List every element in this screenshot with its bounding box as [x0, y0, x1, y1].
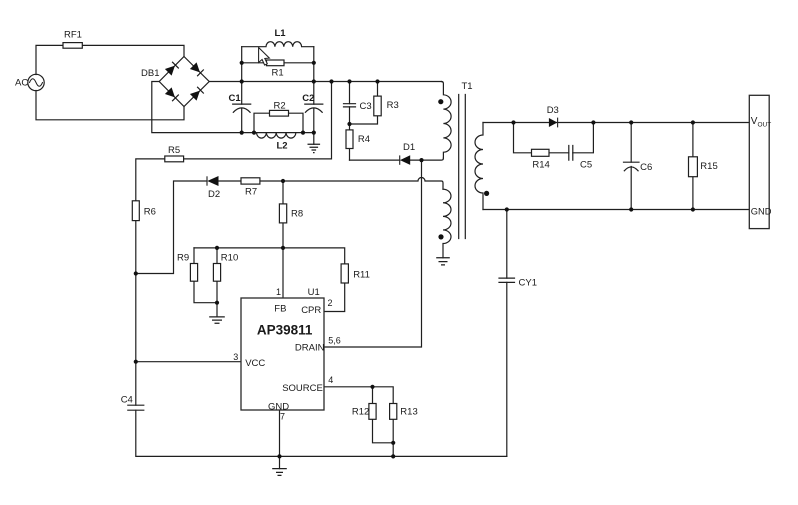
svg-text:GND: GND [751, 207, 772, 217]
svg-text:2: 2 [328, 298, 333, 308]
svg-text:R4: R4 [358, 134, 370, 145]
svg-text:D3: D3 [547, 105, 559, 116]
svg-text:R6: R6 [144, 207, 156, 218]
svg-text:C6: C6 [640, 162, 652, 173]
svg-text:CY1: CY1 [519, 278, 537, 289]
svg-text:R10: R10 [221, 252, 238, 263]
svg-text:R13: R13 [400, 406, 417, 417]
svg-text:D2: D2 [208, 189, 220, 200]
svg-text:DB1: DB1 [141, 68, 159, 79]
svg-text:L1: L1 [275, 28, 287, 39]
svg-text:R14: R14 [532, 160, 549, 171]
svg-text:R2: R2 [274, 101, 286, 112]
svg-text:GND: GND [268, 402, 289, 413]
svg-text:R9: R9 [177, 252, 189, 263]
svg-text:VCC: VCC [245, 358, 265, 369]
svg-text:AP39811: AP39811 [257, 322, 313, 337]
svg-text:D1: D1 [403, 142, 415, 153]
svg-text:R11: R11 [353, 270, 370, 281]
svg-text:C5: C5 [580, 160, 592, 171]
svg-text:C4: C4 [121, 395, 133, 406]
svg-text:R12: R12 [352, 406, 369, 417]
svg-text:R1: R1 [272, 68, 284, 79]
svg-text:7: 7 [280, 411, 285, 421]
svg-text:C1: C1 [229, 93, 242, 104]
svg-text:5,6: 5,6 [328, 335, 341, 345]
svg-text:U1: U1 [308, 287, 320, 298]
svg-text:L2: L2 [277, 141, 288, 152]
svg-text:RF1: RF1 [64, 30, 82, 41]
svg-text:FB: FB [274, 304, 286, 315]
svg-text:R7: R7 [245, 186, 257, 197]
svg-text:R8: R8 [291, 209, 303, 220]
svg-text:C3: C3 [360, 101, 372, 112]
svg-text:CPR: CPR [301, 305, 321, 316]
svg-text:R5: R5 [168, 145, 180, 156]
svg-text:DRAIN: DRAIN [295, 343, 325, 354]
svg-text:T1: T1 [462, 81, 473, 92]
svg-text:AC: AC [15, 78, 28, 89]
svg-text:4: 4 [328, 375, 333, 385]
svg-text:C2: C2 [302, 93, 314, 104]
svg-text:R3: R3 [387, 100, 399, 111]
svg-text:SOURCE: SOURCE [282, 383, 323, 394]
svg-text:R15: R15 [700, 161, 717, 172]
svg-text:1: 1 [276, 287, 281, 297]
svg-text:3: 3 [233, 352, 238, 362]
